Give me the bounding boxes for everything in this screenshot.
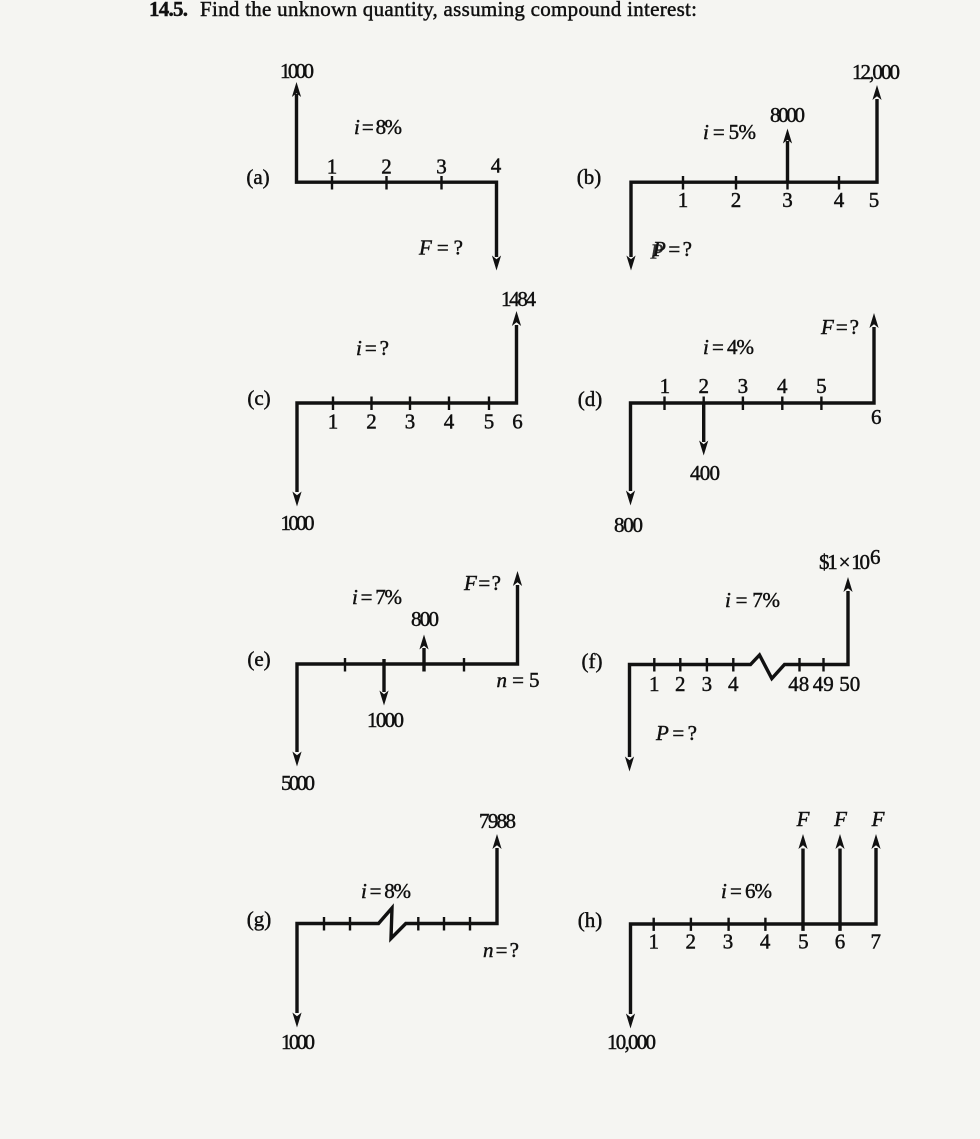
svg-text:6: 6: [835, 930, 846, 954]
svg-text:6: 6: [871, 405, 882, 429]
(f) tick 48: [798, 658, 800, 672]
svg-text:2: 2: [685, 930, 696, 954]
svg-text:3: 3: [405, 410, 416, 434]
svg-text:(b): (b): [577, 165, 602, 189]
svg-text:1000: 1000: [280, 59, 314, 83]
(f) receipt arrowhead at time 50: [843, 577, 852, 592]
(d) disbursement arrow shaft 400 at time 2: [702, 403, 705, 442]
(b) receipt arrowhead at time 5: [872, 85, 881, 100]
(d) tick 1: [663, 397, 665, 411]
(h) tick 3: [727, 918, 729, 931]
svg-text:49: 49: [813, 672, 834, 696]
svg-text:1: 1: [327, 155, 338, 179]
(c) tick 4: [448, 397, 450, 411]
(f) tick 4: [732, 658, 734, 672]
svg-text:F: F: [796, 807, 810, 831]
(e) tick 1: [344, 658, 346, 672]
(f) tick 49: [822, 658, 824, 672]
svg-text:i = ?: i = ?: [356, 336, 389, 360]
(b) tick 2: [735, 176, 737, 190]
(h) receipt arrowhead F at time 5: [798, 834, 807, 849]
(f) tick 2: [679, 658, 681, 672]
svg-text:4: 4: [777, 374, 788, 398]
(a) receipt arrowhead at time 0: [292, 82, 301, 97]
(f) tick 3: [706, 658, 708, 672]
(h) receipt arrow shaft F at time 5: [801, 849, 804, 931]
svg-text:12,000: 12,000: [852, 60, 900, 84]
svg-text:1000: 1000: [367, 708, 404, 732]
svg-text:6: 6: [870, 545, 881, 569]
svg-text:2: 2: [731, 188, 742, 212]
svg-text:5000: 5000: [281, 771, 315, 795]
svg-text:i = 7%: i = 7%: [352, 585, 402, 609]
svg-text:10,000: 10,000: [607, 1030, 656, 1054]
svg-text:F = ?: F = ?: [463, 571, 501, 595]
svg-text:(c): (c): [247, 386, 270, 410]
(b) disbursement arrowhead at time 0: [626, 256, 635, 271]
(c) timeline with down-arrow shaft at 0 and up-arrow shaft at 6: [297, 325, 517, 492]
(f) disbursement arrowhead at time 0: [625, 757, 634, 772]
svg-text:1484: 1484: [501, 287, 537, 311]
svg-text:3: 3: [436, 155, 447, 179]
(c) tick 5: [488, 397, 490, 411]
svg-text:F: F: [833, 807, 847, 831]
svg-text:7988: 7988: [479, 809, 516, 833]
(g) disbursement arrowhead at time 0: [292, 1013, 301, 1028]
svg-text:P = ?: P = ?: [652, 237, 692, 261]
(g) timeline with axis break, down-arrow shaft at 0 and up-arrow shaft at n: [297, 848, 497, 1013]
(e) deposit arrow shaft 800 at time 3: [422, 648, 425, 672]
svg-text:(a): (a): [246, 165, 269, 189]
(f) tick 1: [653, 658, 655, 672]
svg-text:4: 4: [834, 188, 845, 212]
(b) tick 1: [682, 176, 684, 190]
(h) tick 1: [653, 918, 655, 931]
(b) receipt arrowhead 8000: [783, 129, 792, 144]
svg-text:n = ?: n = ?: [483, 938, 519, 962]
(g) tick 7: [469, 917, 471, 931]
svg-text:(d): (d): [578, 387, 603, 411]
svg-text:3: 3: [723, 930, 734, 954]
svg-text:Find the unknown quantity, ass: Find the unknown quantity, assuming comp…: [200, 0, 697, 21]
(h) tick 2: [690, 918, 692, 931]
(c) tick 2: [370, 397, 372, 411]
(e) disbursement arrow shaft 1000 at time 2: [382, 659, 385, 692]
(e) receipt arrowhead at time 5: [513, 571, 522, 586]
svg-text:4: 4: [491, 154, 502, 178]
(d) receipt arrowhead at time 6: [869, 313, 878, 328]
(g) tick 6: [443, 917, 445, 931]
(h) timeline with down-arrow shaft at 0 and up-arrow shaft at 7: [631, 848, 877, 1014]
svg-text:50: 50: [839, 672, 860, 696]
(c) disbursement arrowhead at time 0: [292, 492, 301, 507]
svg-text:(e): (e): [247, 647, 270, 671]
(d) tick 4: [781, 397, 783, 411]
(a) disbursement arrowhead at time 4: [492, 256, 501, 271]
svg-text:14.5.: 14.5.: [149, 0, 188, 21]
svg-text:F = ?: F = ?: [418, 236, 463, 260]
svg-text:F = ?: F = ?: [820, 315, 859, 339]
(c) tick 3: [409, 397, 411, 411]
svg-text:1: 1: [328, 410, 339, 434]
svg-text:4: 4: [728, 672, 739, 696]
(d) disbursement arrowhead at time 0: [626, 491, 635, 506]
svg-text:3: 3: [702, 672, 713, 696]
svg-text:i = 4%: i = 4%: [703, 335, 754, 359]
svg-text:4: 4: [760, 930, 771, 954]
(a) tick 1: [331, 176, 333, 190]
svg-text:800: 800: [614, 513, 643, 537]
(d) tick 3: [742, 397, 744, 411]
svg-text:(f): (f): [582, 649, 603, 673]
(d) tick 5: [820, 397, 822, 411]
(b) tick 4: [838, 176, 840, 190]
svg-text:8000: 8000: [770, 103, 805, 127]
svg-text:5: 5: [484, 410, 495, 434]
svg-text:P = ?: P = ?: [655, 721, 697, 745]
svg-text:1000: 1000: [281, 511, 315, 535]
(h) receipt arrowhead F at time 6: [835, 834, 844, 849]
svg-text:1000: 1000: [281, 1030, 315, 1054]
svg-text:$1 × 10: $1 × 10: [819, 550, 870, 574]
(a) timeline with up-arrow shaft at 0 and down-arrow shaft at 4: [297, 94, 497, 257]
svg-text:800: 800: [411, 607, 439, 631]
(e) tick 4: [463, 658, 465, 672]
svg-text:5: 5: [816, 374, 827, 398]
svg-text:i = 7%: i = 7%: [725, 588, 780, 612]
svg-text:i = 8%: i = 8%: [361, 879, 411, 903]
(a) tick 2: [385, 176, 387, 190]
svg-text:(g): (g): [247, 907, 272, 931]
svg-text:2: 2: [675, 672, 686, 696]
svg-text:5: 5: [869, 188, 880, 212]
(g) tick 1: [323, 917, 325, 931]
svg-text:48: 48: [788, 672, 809, 696]
(e) timeline with down-arrow shaft at 0 and up-arrow shaft at 5: [297, 585, 518, 752]
svg-text:i = 5%: i = 5%: [703, 120, 756, 144]
(h) receipt arrowhead at time 7: [871, 834, 880, 849]
svg-text:5: 5: [798, 930, 809, 954]
(a) tick 3: [440, 176, 442, 190]
(d) timeline with down-arrow shaft at 0 and up-arrow shaft at 6: [631, 327, 875, 491]
(b) tick 3: [786, 176, 788, 190]
(e) disbursement arrowhead at time 0: [292, 752, 301, 767]
(c) receipt arrowhead at time 6: [512, 311, 521, 326]
svg-text:1: 1: [660, 374, 671, 398]
svg-text:3: 3: [738, 374, 749, 398]
svg-text:2: 2: [381, 155, 392, 179]
svg-text:6: 6: [512, 410, 523, 434]
svg-text:1: 1: [648, 930, 659, 954]
(d) tick 2: [703, 397, 705, 411]
(c) tick 1: [332, 397, 334, 411]
svg-text:2: 2: [698, 374, 709, 398]
svg-text:(h): (h): [578, 908, 603, 932]
(b) deposit arrow shaft 8000 at time 3: [786, 141, 789, 182]
(e) disbursement arrowhead 1000: [379, 691, 388, 706]
(b) timeline with down-arrow shaft at 0 and up-arrow shaft at 5: [631, 99, 877, 257]
(d) disbursement arrowhead 400: [699, 441, 708, 456]
(h) receipt arrow shaft F at time 6: [838, 849, 841, 931]
(g) receipt arrowhead at time n: [492, 834, 501, 849]
svg-text:7: 7: [870, 930, 881, 954]
svg-text:2: 2: [366, 410, 377, 434]
svg-text:400: 400: [690, 461, 720, 485]
svg-text:i = 6%: i = 6%: [721, 879, 772, 903]
svg-text:1: 1: [649, 672, 660, 696]
(h) tick 4: [764, 918, 766, 931]
svg-text:n = 5: n = 5: [497, 668, 540, 692]
(g) tick 2: [349, 917, 351, 931]
svg-text:1: 1: [678, 188, 689, 212]
svg-text:3: 3: [782, 188, 793, 212]
svg-text:i = 8%: i = 8%: [354, 115, 402, 139]
(f) timeline with axis break, down-arrow shaft at 0 and up-arrow shaft at 50: [630, 591, 849, 757]
svg-text:F: F: [871, 807, 885, 831]
(h) disbursement arrowhead at time 0: [626, 1014, 635, 1029]
(e) receipt arrowhead 800: [419, 635, 428, 650]
svg-text:4: 4: [444, 410, 455, 434]
(g) tick 5: [417, 917, 419, 931]
